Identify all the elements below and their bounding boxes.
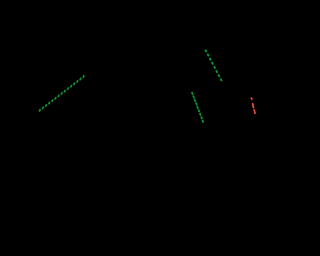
green dashed trajectory line C (right-middle, descending) bbox=[192, 92, 204, 123]
green dashed trajectory line A (lower-left, rising to the right) bbox=[39, 75, 84, 111]
red dashed trajectory line D (right edge, descending) bbox=[251, 97, 255, 114]
green dashed trajectory line B (upper-right, descending) bbox=[205, 50, 222, 81]
